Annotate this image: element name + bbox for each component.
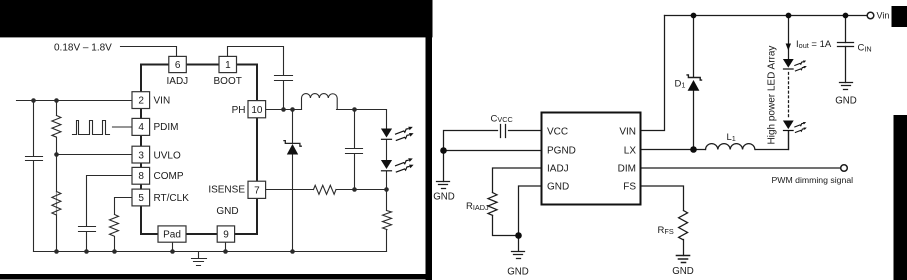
svg-text:PWM dimming signal: PWM dimming signal xyxy=(772,175,854,185)
svg-text:GND: GND xyxy=(433,191,455,202)
ground CIN xyxy=(840,83,853,90)
capacitor CIN xyxy=(838,43,854,47)
black rect top-right xyxy=(892,6,907,27)
svg-text:10: 10 xyxy=(251,105,263,116)
svg-text:BOOT: BOOT xyxy=(214,76,242,87)
svg-text:LX: LX xyxy=(624,145,637,156)
svg-text:VCC: VCC xyxy=(547,126,568,137)
black top band xyxy=(0,0,433,37)
diode D1 (right) xyxy=(688,80,700,91)
wire PGND xyxy=(444,150,542,152)
svg-text:D1: D1 xyxy=(675,79,686,90)
wire PH node xyxy=(266,109,302,111)
LED D2 (left string bottom) xyxy=(381,160,392,169)
wire top rail Vin xyxy=(665,15,868,17)
svg-text:2: 2 xyxy=(138,96,144,107)
capacitor output xyxy=(346,149,363,154)
svg-text:8: 8 xyxy=(138,171,144,182)
pin 2 box xyxy=(132,92,150,109)
wire output cap branch xyxy=(354,110,356,190)
wire UVLO tap xyxy=(57,154,133,156)
svg-text:Pad: Pad xyxy=(163,230,181,241)
svg-text:GND: GND xyxy=(507,267,529,278)
svg-text:6: 6 xyxy=(175,60,181,71)
black vertical bar xyxy=(426,0,433,280)
svg-text:VIN: VIN xyxy=(619,126,636,137)
diode D freewheel (left) xyxy=(287,144,298,155)
svg-text:GND: GND xyxy=(835,95,857,106)
junction dots (left diagram) xyxy=(31,98,36,103)
svg-text:RIADJ: RIADJ xyxy=(466,201,489,212)
black bottom band xyxy=(0,274,432,279)
capacitor bootstrap xyxy=(275,76,293,81)
wire FS xyxy=(641,186,684,256)
terminal Vin circle xyxy=(867,12,874,19)
LED array bottom LED xyxy=(783,121,794,130)
inductor L (left diagram) xyxy=(302,94,338,110)
wire Pad stub xyxy=(172,243,174,252)
svg-text:CVCC: CVCC xyxy=(491,113,513,124)
junction dots (right diagram) xyxy=(691,13,697,19)
svg-text:CIN: CIN xyxy=(858,43,872,54)
svg-text:7: 7 xyxy=(254,186,260,197)
wire VIN pin riser xyxy=(641,16,665,131)
pin 6 box xyxy=(169,56,187,72)
IC U2 body (right diagram) xyxy=(542,113,641,205)
wire GND pin xyxy=(519,186,542,236)
terminal PWM circle xyxy=(841,165,848,172)
svg-text:Iout = 1A: Iout = 1A xyxy=(796,39,832,50)
wire VCC with CVCC xyxy=(444,131,542,151)
wire left vertical with input cap xyxy=(33,101,35,252)
wire BOOT to bootstrap cap xyxy=(228,47,284,110)
svg-text:PH: PH xyxy=(232,105,246,116)
wire LED array middle dashed xyxy=(788,73,790,119)
resistor LED current set xyxy=(383,211,392,230)
pin 5 box xyxy=(132,189,150,206)
svg-text:5: 5 xyxy=(138,193,144,204)
svg-text:L1: L1 xyxy=(727,132,736,143)
svg-text:1: 1 xyxy=(225,60,231,71)
black rect right edge xyxy=(894,115,907,280)
capacitor CVCC xyxy=(501,125,506,138)
svg-text:GND: GND xyxy=(672,266,694,277)
wire D1 branch xyxy=(693,16,695,150)
svg-text:Vin: Vin xyxy=(877,11,890,21)
wire LX to LED array xyxy=(756,132,789,150)
pin 4 box xyxy=(132,118,150,135)
wire pin9 stub xyxy=(225,243,227,252)
LED array top LED xyxy=(783,59,794,68)
wire RT/CLK xyxy=(115,198,133,252)
svg-text:DIM: DIM xyxy=(618,163,636,174)
resistor divider top xyxy=(52,116,61,138)
wire COMP xyxy=(87,176,133,252)
wire input rail xyxy=(17,100,133,102)
svg-text:IADJ: IADJ xyxy=(547,163,569,174)
wire DIM xyxy=(641,167,841,169)
svg-text:IADJ: IADJ xyxy=(167,76,189,87)
resistor RIADJ xyxy=(488,193,497,216)
wire IADJ set voltage xyxy=(121,47,177,57)
pin 3 box xyxy=(132,146,150,163)
svg-text:PGND: PGND xyxy=(547,145,576,156)
wire ISENSE xyxy=(267,189,387,191)
svg-text:UVLO: UVLO xyxy=(154,150,181,161)
resistor sense (horizontal) xyxy=(314,185,337,194)
svg-text:4: 4 xyxy=(138,122,144,133)
arrow Iout xyxy=(786,44,791,51)
PWM pulse waveform symbol xyxy=(73,121,110,135)
svg-text:VIN: VIN xyxy=(154,96,171,107)
LED D1 (left string top) xyxy=(381,129,392,138)
ground (left diagram) xyxy=(192,252,207,266)
ground RFS xyxy=(677,256,690,263)
wire LED string xyxy=(386,110,388,252)
wire LED array top xyxy=(788,16,790,59)
ground RIADJ/GND xyxy=(512,252,525,259)
resistor divider bottom xyxy=(52,192,61,216)
svg-text:COMP: COMP xyxy=(154,171,184,182)
IC body (left diagram) xyxy=(141,65,257,235)
svg-text:3: 3 xyxy=(138,150,144,161)
wire CIN branch xyxy=(845,16,847,83)
wire PDIM annotation link xyxy=(113,126,133,128)
svg-text:ISENSE: ISENSE xyxy=(208,185,245,196)
svg-text:PDIM: PDIM xyxy=(154,122,179,133)
pin 8 box xyxy=(132,167,150,184)
capacitor COMP xyxy=(79,227,96,232)
svg-text:High power LED Array: High power LED Array xyxy=(767,46,778,145)
pin 9 box xyxy=(217,226,234,242)
ground PGND xyxy=(437,182,450,189)
wire IADJ xyxy=(493,168,542,236)
resistor RT/CLK xyxy=(110,215,119,237)
wire LED array bottom xyxy=(788,132,790,150)
svg-text:0.18V – 1.8V: 0.18V – 1.8V xyxy=(54,43,112,54)
svg-text:GND: GND xyxy=(216,206,238,217)
wire PGND ground drop xyxy=(443,151,445,182)
capacitor input C (left column) xyxy=(26,157,43,161)
svg-text:RFS: RFS xyxy=(658,225,674,236)
Pad box xyxy=(158,226,186,242)
svg-text:GND: GND xyxy=(547,181,569,192)
wire LX xyxy=(641,149,706,151)
pin 7 box xyxy=(248,181,266,198)
svg-text:RT/CLK: RT/CLK xyxy=(154,193,190,204)
wire second vertical (divider) xyxy=(56,101,58,252)
pin 10 box xyxy=(248,101,266,118)
wire diode branch xyxy=(292,110,294,252)
inductor L1 xyxy=(706,144,755,150)
wire GND drop below dot xyxy=(518,236,520,251)
svg-text:FS: FS xyxy=(623,181,636,192)
svg-text:9: 9 xyxy=(223,230,229,241)
wire PH to output xyxy=(337,109,387,111)
wire bottom rail xyxy=(34,251,387,253)
resistor RFS xyxy=(679,211,688,240)
pin 1 box xyxy=(219,56,237,72)
